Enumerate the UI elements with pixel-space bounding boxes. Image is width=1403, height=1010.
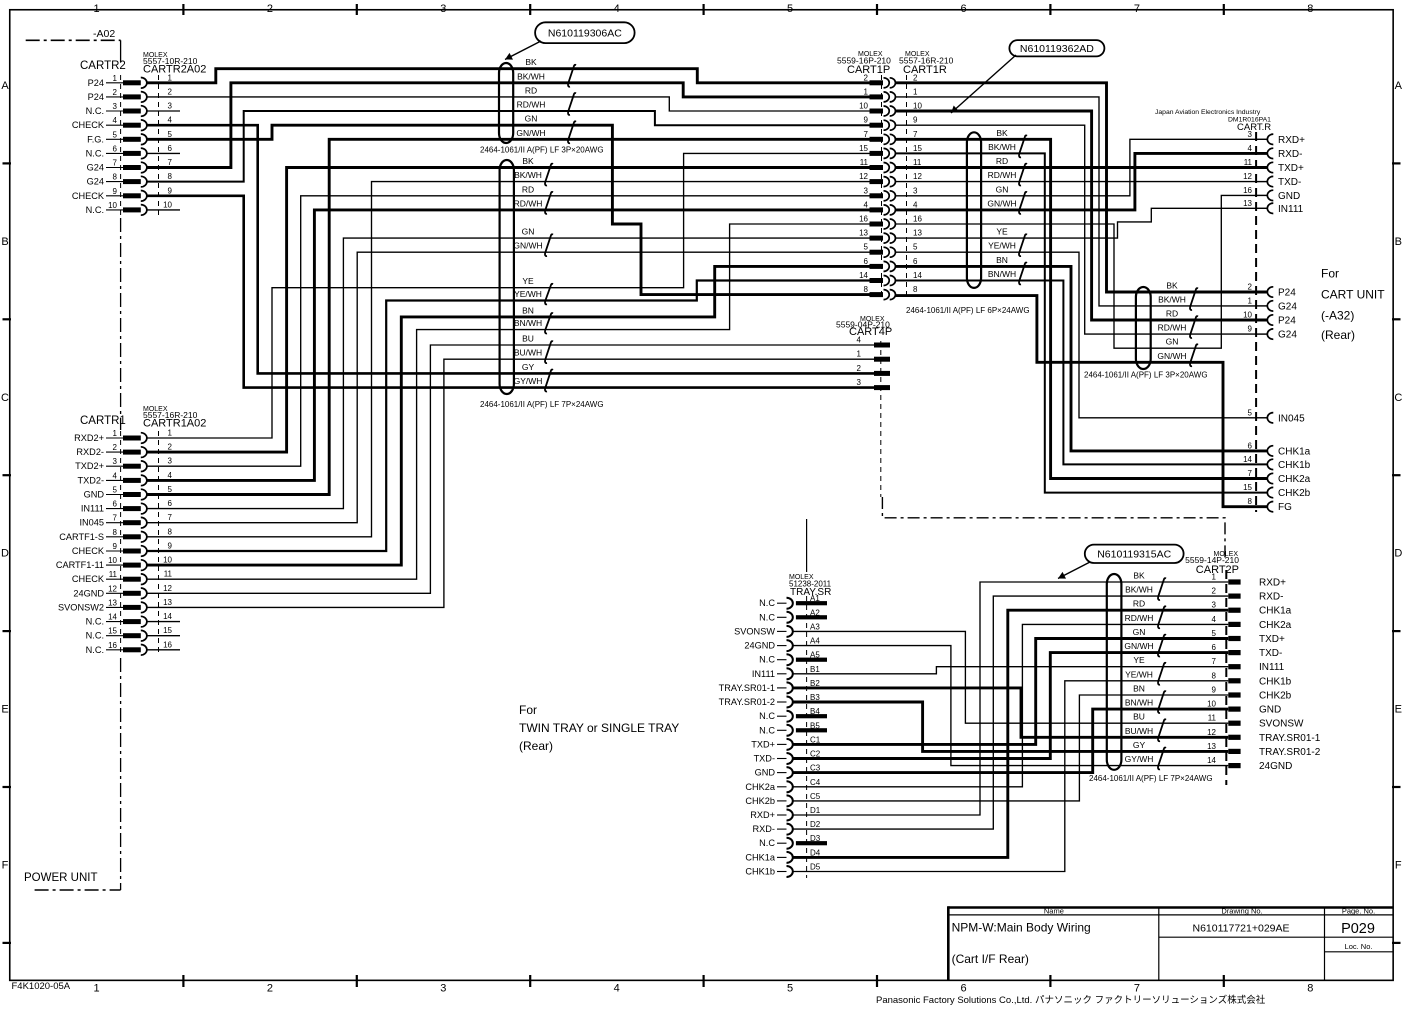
svg-text:CHK1a: CHK1a — [1278, 446, 1311, 457]
svg-text:9: 9 — [1248, 325, 1253, 334]
svg-text:8: 8 — [913, 285, 918, 294]
svg-text:GY/WH: GY/WH — [1125, 754, 1154, 764]
svg-text:14: 14 — [859, 271, 868, 280]
wire CART1R.5 -> CART.R.5 IN045 (YE/WH) — [896, 252, 1268, 418]
svg-text:YE/WH: YE/WH — [988, 241, 1016, 251]
wire CARTR1.14 N.C. stub — [146, 621, 180, 623]
svg-text:4: 4 — [168, 116, 173, 125]
svg-text:TRAY.SR01-2: TRAY.SR01-2 — [719, 697, 775, 707]
svg-text:RD: RD — [525, 85, 537, 95]
svg-text:CHK1b: CHK1b — [1259, 676, 1292, 687]
boundary line above TRAY.SR — [806, 519, 808, 572]
svg-text:1: 1 — [113, 429, 118, 438]
wire CARTR2.3 N.C. stub — [146, 110, 180, 112]
svg-text:IN111: IN111 — [81, 504, 104, 514]
svg-text:C4: C4 — [810, 778, 821, 787]
wire TRAY.SR.B3 TRAY.SR01-2 -> CART2P.13 (GY) — [794, 702, 1229, 751]
svg-text:7: 7 — [113, 514, 118, 523]
svg-text:D5: D5 — [810, 863, 821, 872]
svg-text:7: 7 — [913, 130, 918, 139]
svg-text:B: B — [1, 236, 8, 248]
svg-text:BN/WH: BN/WH — [988, 269, 1016, 279]
svg-text:8: 8 — [113, 528, 118, 537]
wire TRAY.SR.C4 CHK2a -> CART2P.4 (RD/WH) — [794, 624, 1229, 786]
svg-text:9: 9 — [913, 116, 918, 125]
svg-text:15: 15 — [163, 626, 172, 635]
svg-text:BN: BN — [522, 305, 534, 315]
svg-text:TXD2-: TXD2- — [77, 475, 104, 485]
svg-text:5: 5 — [913, 243, 918, 252]
svg-text:Name: Name — [1044, 906, 1064, 915]
cable shield 3P x 20AWG (CARTR2 power cable) — [499, 63, 513, 143]
svg-text:N.C: N.C — [759, 711, 775, 721]
svg-text:C5: C5 — [810, 792, 821, 801]
svg-text:SVONSW: SVONSW — [734, 626, 775, 636]
svg-text:CHK1b: CHK1b — [1278, 460, 1311, 471]
svg-text:5: 5 — [787, 3, 793, 15]
svg-text:3: 3 — [113, 102, 118, 111]
leader arrow to CART1R — [951, 55, 1016, 113]
svg-text:TXD+: TXD+ — [751, 739, 775, 749]
svg-text:TWIN TRAY or SINGLE TRAY: TWIN TRAY or SINGLE TRAY — [519, 721, 679, 735]
wire CARTR1.2 RXD2- -> CART1P.11 (RD) — [146, 168, 869, 453]
svg-text:YE: YE — [1133, 655, 1145, 665]
svg-text:10: 10 — [859, 102, 868, 111]
svg-text:2464-1061/II A(PF) LF 3P×20AWG: 2464-1061/II A(PF) LF 3P×20AWG — [480, 145, 604, 154]
svg-text:5: 5 — [113, 486, 118, 495]
title block — [948, 906, 1393, 909]
svg-text:CHK2b: CHK2b — [1259, 691, 1292, 702]
svg-text:F4K1020-05A: F4K1020-05A — [12, 981, 71, 992]
svg-text:7: 7 — [113, 159, 118, 168]
svg-text:RD: RD — [996, 156, 1008, 166]
svg-text:GND: GND — [1278, 191, 1300, 202]
svg-text:B1: B1 — [810, 665, 820, 674]
svg-text:7: 7 — [168, 158, 173, 167]
svg-text:GY: GY — [1133, 740, 1146, 750]
svg-text:6: 6 — [113, 144, 118, 153]
svg-text:1: 1 — [93, 3, 99, 15]
svg-text:BK/WH: BK/WH — [988, 142, 1016, 152]
harness number bubble N610119315AC — [1085, 545, 1184, 563]
svg-text:8: 8 — [1307, 3, 1313, 15]
svg-text:GN: GN — [522, 227, 535, 237]
svg-text:G24: G24 — [87, 163, 104, 173]
svg-text:RXD2-: RXD2- — [76, 447, 104, 457]
svg-text:3: 3 — [864, 186, 869, 195]
svg-text:GND: GND — [84, 490, 105, 500]
svg-text:CARTF1-11: CARTF1-11 — [56, 560, 104, 570]
wire CARTR2.7 G24 -> CART1P.1 (BK/WH) — [146, 83, 869, 168]
svg-text:IN045: IN045 — [79, 518, 104, 528]
svg-text:E: E — [1395, 704, 1402, 716]
svg-text:BK/WH: BK/WH — [514, 170, 542, 180]
svg-text:16: 16 — [1243, 186, 1252, 195]
wire TRAY.SR.C5 CHK2b -> CART2P.9 (BN) — [794, 695, 1229, 801]
svg-text:RD: RD — [1133, 599, 1145, 609]
svg-text:BU: BU — [522, 334, 534, 344]
svg-text:8: 8 — [113, 173, 118, 182]
svg-text:11: 11 — [860, 158, 869, 167]
svg-text:RD/WH: RD/WH — [1158, 323, 1187, 333]
svg-text:CART1P: CART1P — [847, 64, 890, 76]
wire CARTR2.9 CHECK -> CART4P.3 — [146, 196, 874, 388]
svg-text:3: 3 — [857, 378, 862, 387]
cable shield 6P x 24AWG (CART1R signal cable) — [967, 132, 981, 288]
svg-text:RD: RD — [522, 184, 534, 194]
svg-text:2464-1061/II A(PF) LF 6P×24AWG: 2464-1061/II A(PF) LF 6P×24AWG — [906, 306, 1030, 315]
svg-text:15: 15 — [108, 627, 117, 636]
svg-text:A: A — [1395, 80, 1403, 92]
svg-text:4: 4 — [1248, 144, 1253, 153]
svg-text:TRAY.SR01-2: TRAY.SR01-2 — [1259, 747, 1321, 758]
svg-text:CHECK: CHECK — [72, 574, 105, 584]
leader arrow to cable 4 — [1058, 562, 1090, 579]
svg-text:14: 14 — [108, 613, 117, 622]
svg-text:12: 12 — [859, 172, 868, 181]
harness number bubble N610119306AC — [535, 22, 635, 43]
svg-text:D1: D1 — [810, 806, 821, 815]
svg-text:6: 6 — [913, 257, 918, 266]
svg-text:14: 14 — [913, 271, 922, 280]
svg-text:4: 4 — [864, 200, 869, 209]
svg-text:10: 10 — [108, 556, 117, 565]
svg-text:2: 2 — [113, 443, 118, 452]
wire CART1R.15 -> CART.R.15 CHK2b (BK/WH) — [896, 153, 1268, 492]
wire CARTR2.8 G24 -> CART1P.9 (RD/WH) — [146, 111, 869, 182]
wire CARTR1.6 IN111 -> CART1P.13 (YE) — [146, 238, 869, 509]
svg-text:9: 9 — [1212, 686, 1217, 695]
wire TRAY.SR.A4 24GND -> CART2P.14 (GY/WH) — [794, 646, 1229, 766]
svg-text:6: 6 — [168, 499, 173, 508]
svg-text:CHECK: CHECK — [72, 546, 105, 556]
wire TRAY.SR.B2 TRAY.SR01-1 -> CART2P.12 (BU/WH) — [794, 688, 1229, 737]
svg-text:N610119362AD: N610119362AD — [1020, 43, 1094, 55]
wire CARTR1.8 CARTF1-S -> CART1P.12 (RD/WH) — [146, 182, 869, 537]
svg-text:3: 3 — [440, 983, 446, 995]
svg-text:G24: G24 — [87, 177, 104, 187]
svg-text:GY: GY — [522, 362, 535, 372]
svg-text:2: 2 — [168, 87, 173, 96]
svg-text:A: A — [1, 80, 9, 92]
wire CART1R.2 -> CART.R.2 P24 (BK) — [896, 83, 1268, 292]
svg-text:1: 1 — [864, 87, 869, 96]
svg-text:GN/WH: GN/WH — [987, 198, 1016, 208]
svg-text:TRAY.SR01-1: TRAY.SR01-1 — [719, 683, 775, 693]
svg-text:For: For — [519, 703, 537, 717]
svg-text:CARTR1A02: CARTR1A02 — [143, 418, 206, 430]
svg-text:BU/WH: BU/WH — [1125, 726, 1153, 736]
svg-text:BU/WH: BU/WH — [514, 348, 542, 358]
svg-text:4: 4 — [913, 200, 918, 209]
svg-text:BK/WH: BK/WH — [517, 71, 545, 81]
svg-text:11: 11 — [1244, 158, 1253, 167]
svg-text:11: 11 — [1208, 714, 1217, 723]
svg-text:YE/WH: YE/WH — [514, 289, 542, 299]
svg-text:CARTR2A02: CARTR2A02 — [143, 64, 206, 76]
svg-text:B: B — [1395, 236, 1402, 248]
cable shield 7P x 24AWG (CARTR1 signal cable) — [500, 160, 514, 394]
svg-text:6: 6 — [1212, 643, 1217, 652]
wire TRAY.SR.A3 SVONSW -> CART2P.11 (BU) — [794, 631, 1229, 723]
svg-text:12: 12 — [108, 584, 117, 593]
svg-text:IN111: IN111 — [1259, 662, 1285, 673]
svg-text:BK: BK — [1166, 281, 1178, 291]
svg-text:RXD+: RXD+ — [1278, 135, 1305, 146]
svg-text:RXD-: RXD- — [1259, 592, 1283, 603]
svg-text:E: E — [1, 704, 8, 716]
wire CARTR1.16 N.C. stub — [146, 649, 180, 651]
svg-text:4: 4 — [113, 116, 118, 125]
wire CARTR1.3 TXD2+ -> CART1P.3 (GN) — [146, 196, 869, 466]
wire CARTR1.4 TXD2- -> CART1P.4 (GN/WH) — [146, 210, 869, 481]
wire CARTR1.11 CHECK -> CART1P.16 — [146, 224, 869, 579]
svg-text:24GND: 24GND — [744, 641, 775, 651]
svg-text:15: 15 — [859, 144, 868, 153]
svg-text:A4: A4 — [810, 637, 820, 646]
svg-text:BK/WH: BK/WH — [1125, 585, 1153, 595]
svg-text:12: 12 — [1243, 172, 1252, 181]
wire CART1R.6 -> CART.R.6 CHK1a (BN) — [896, 266, 1268, 451]
svg-text:2: 2 — [864, 73, 869, 82]
svg-text:F.G.: F.G. — [87, 134, 104, 144]
svg-text:N.C: N.C — [759, 598, 775, 608]
svg-text:8: 8 — [1248, 497, 1253, 506]
svg-text:12: 12 — [1207, 728, 1216, 737]
svg-text:5: 5 — [1248, 408, 1253, 417]
svg-text:CHK1a: CHK1a — [1259, 606, 1292, 617]
svg-text:GND: GND — [1259, 705, 1281, 716]
svg-text:3: 3 — [440, 3, 446, 15]
svg-text:CHK2b: CHK2b — [745, 796, 775, 806]
wire TRAY.SR.D1 RXD+ -> CART2P.1 (BK) — [794, 582, 1229, 815]
svg-text:YE: YE — [522, 276, 534, 286]
svg-text:CARTR1: CARTR1 — [80, 415, 126, 427]
svg-text:GN: GN — [996, 184, 1009, 194]
svg-text:CHK2a: CHK2a — [1259, 620, 1292, 631]
svg-text:13: 13 — [1243, 199, 1252, 208]
svg-text:7: 7 — [1134, 983, 1140, 995]
svg-text:IN111: IN111 — [752, 669, 775, 679]
svg-text:RD: RD — [1166, 309, 1178, 319]
svg-text:(Rear): (Rear) — [1321, 328, 1355, 342]
wire CART1R.1 -> CART.R.1 G24 (BK/WH) — [896, 97, 1268, 306]
wire CARTR2.6 N.C. stub — [146, 152, 180, 154]
svg-text:6: 6 — [960, 983, 966, 995]
svg-text:GN/WH: GN/WH — [1124, 641, 1153, 651]
svg-text:1: 1 — [93, 983, 99, 995]
svg-text:11: 11 — [164, 570, 173, 579]
svg-text:RXD+: RXD+ — [750, 810, 775, 820]
svg-text:16: 16 — [108, 641, 117, 650]
boundary -A02 (power unit enclosure) — [26, 39, 121, 41]
svg-text:BN/WH: BN/WH — [514, 318, 542, 328]
svg-text:P24: P24 — [1278, 288, 1296, 299]
svg-text:1: 1 — [913, 87, 918, 96]
svg-text:TXD-: TXD- — [754, 754, 775, 764]
wire CARTR1.12 24GND -> CART4P.4 — [146, 345, 874, 593]
svg-text:12: 12 — [913, 172, 922, 181]
svg-text:CHK2a: CHK2a — [745, 782, 776, 792]
svg-text:3: 3 — [913, 186, 918, 195]
svg-text:CHK2b: CHK2b — [1278, 488, 1311, 499]
svg-text:P24: P24 — [88, 92, 104, 102]
svg-text:9: 9 — [864, 116, 869, 125]
wire CART1R.8 -> CART.R.8 FG (GN/WH) — [896, 296, 1268, 507]
svg-text:YE: YE — [996, 227, 1008, 237]
svg-text:1: 1 — [1248, 296, 1253, 305]
svg-text:CHK1b: CHK1b — [745, 867, 775, 877]
svg-text:5: 5 — [113, 130, 118, 139]
svg-text:7: 7 — [1248, 469, 1253, 478]
svg-text:N610119306AC: N610119306AC — [548, 28, 622, 40]
svg-text:BK: BK — [522, 156, 534, 166]
wire CART1R.14 -> CART.R.14 CHK1b (BN/WH) — [896, 281, 1268, 465]
svg-text:TXD-: TXD- — [1259, 648, 1282, 659]
svg-text:GN/WH: GN/WH — [513, 241, 542, 251]
wire CARTR2.2 P24 -> CART1P.10 (RD) — [146, 97, 869, 111]
svg-text:N.C.: N.C. — [86, 631, 104, 641]
svg-text:(Rear): (Rear) — [519, 739, 553, 753]
svg-text:IN111: IN111 — [1278, 204, 1304, 215]
svg-text:6: 6 — [113, 500, 118, 509]
svg-text:14: 14 — [1243, 455, 1252, 464]
svg-text:11: 11 — [913, 158, 922, 167]
svg-text:NPM-W:Main Body Wiring: NPM-W:Main Body Wiring — [952, 921, 1091, 935]
svg-text:TXD+: TXD+ — [1278, 163, 1304, 174]
svg-text:2: 2 — [113, 88, 118, 97]
svg-text:BK: BK — [525, 57, 537, 67]
svg-text:N610117721+029AE: N610117721+029AE — [1192, 923, 1289, 935]
svg-text:FG: FG — [1278, 502, 1292, 513]
svg-text:16: 16 — [163, 640, 172, 649]
svg-text:7: 7 — [1212, 657, 1217, 666]
svg-text:8: 8 — [1212, 671, 1217, 680]
wire CARTR2.4 CHECK -> CART4P.2 — [146, 125, 874, 373]
svg-text:9: 9 — [113, 542, 118, 551]
svg-text:RD/WH: RD/WH — [517, 100, 546, 110]
wire CARTR2.10 N.C. stub — [146, 209, 180, 211]
svg-text:BN: BN — [1133, 684, 1145, 694]
svg-text:8: 8 — [168, 172, 173, 181]
svg-text:14: 14 — [1207, 756, 1216, 765]
svg-text:F: F — [1395, 860, 1402, 872]
svg-text:Drawing No.: Drawing No. — [1221, 906, 1262, 915]
svg-text:8: 8 — [864, 285, 869, 294]
cable shield 3P x 20AWG (CART.R power cable) — [1136, 287, 1151, 369]
svg-text:24GND: 24GND — [1259, 761, 1292, 772]
svg-text:C: C — [1, 392, 9, 404]
svg-text:9: 9 — [168, 186, 173, 195]
svg-text:3: 3 — [1248, 130, 1253, 139]
svg-text:8: 8 — [1307, 983, 1313, 995]
svg-text:1: 1 — [168, 73, 173, 82]
svg-text:D2: D2 — [810, 820, 821, 829]
svg-text:GN: GN — [1166, 337, 1179, 347]
wire TRAY.SR.C3 GND -> CART2P.10 (BN/WH) — [794, 709, 1229, 773]
svg-text:TXD+: TXD+ — [1259, 634, 1285, 645]
svg-text:2464-1061/II A(PF) LF 7P×24AWG: 2464-1061/II A(PF) LF 7P×24AWG — [1089, 774, 1213, 783]
svg-text:TRAY.SR01-1: TRAY.SR01-1 — [1259, 733, 1321, 744]
svg-text:4: 4 — [168, 471, 173, 480]
svg-text:6: 6 — [960, 3, 966, 15]
svg-text:Panasonic Factory Solutions Co: Panasonic Factory Solutions Co.,Ltd. パナソ… — [876, 994, 1266, 1006]
svg-text:BK: BK — [996, 128, 1008, 138]
svg-text:GN: GN — [525, 114, 538, 124]
svg-text:BK: BK — [1133, 571, 1145, 581]
svg-text:5: 5 — [1212, 629, 1217, 638]
svg-text:N.C.: N.C. — [86, 205, 104, 215]
svg-text:YE/WH: YE/WH — [1125, 669, 1153, 679]
cable shield 7P x 24AWG (CART2P cable) — [1107, 574, 1122, 770]
svg-text:3: 3 — [113, 457, 118, 466]
svg-text:3: 3 — [168, 457, 173, 466]
svg-text:12: 12 — [163, 584, 172, 593]
svg-text:4: 4 — [113, 471, 118, 480]
svg-text:7: 7 — [168, 513, 173, 522]
wire CART1R.3 -> CART.R.3 RXD+ (GN) — [896, 139, 1268, 196]
wire CARTR1.1 RXD2+ -> CART1P.15 — [146, 153, 869, 438]
svg-text:5: 5 — [168, 485, 173, 494]
svg-text:N.C.: N.C. — [86, 617, 104, 627]
svg-text:14: 14 — [163, 612, 172, 621]
wire CARTR1.10 CARTF1-11 -> CART1P.6 (BN) — [146, 266, 869, 565]
svg-text:10: 10 — [163, 556, 172, 565]
svg-text:4: 4 — [1212, 615, 1217, 624]
svg-text:N.C: N.C — [759, 725, 775, 735]
svg-text:N.C: N.C — [759, 838, 775, 848]
svg-text:5: 5 — [864, 243, 869, 252]
svg-text:P24: P24 — [1278, 316, 1296, 327]
svg-text:N.C.: N.C. — [86, 106, 104, 116]
wire CARTR1.15 N.C. stub — [146, 635, 180, 637]
svg-text:-A02: -A02 — [93, 28, 115, 40]
svg-text:10: 10 — [1243, 311, 1252, 320]
svg-text:RD/WH: RD/WH — [988, 170, 1017, 180]
svg-text:CART1R: CART1R — [903, 64, 947, 76]
svg-text:13: 13 — [163, 598, 172, 607]
svg-text:CHK2a: CHK2a — [1278, 474, 1311, 485]
svg-text:TXD-: TXD- — [1278, 177, 1301, 188]
svg-text:A3: A3 — [810, 622, 820, 631]
svg-text:RXD2+: RXD2+ — [74, 433, 104, 443]
svg-text:24GND: 24GND — [73, 588, 104, 598]
svg-text:D: D — [1, 548, 9, 560]
svg-text:CHECK: CHECK — [72, 120, 105, 130]
leader arrow to cable 1 — [505, 41, 541, 60]
svg-text:F: F — [2, 860, 9, 872]
svg-text:10: 10 — [108, 201, 117, 210]
svg-text:2464-1061/II A(PF) LF 3P×20AWG: 2464-1061/II A(PF) LF 3P×20AWG — [1084, 371, 1208, 380]
svg-text:1: 1 — [1212, 573, 1217, 582]
svg-text:N.C: N.C — [759, 612, 775, 622]
svg-text:RXD-: RXD- — [753, 824, 775, 834]
svg-text:2: 2 — [1212, 587, 1217, 596]
svg-text:4: 4 — [614, 3, 620, 15]
svg-text:N.C.: N.C. — [86, 645, 104, 655]
svg-text:BK/WH: BK/WH — [1158, 294, 1186, 304]
svg-text:13: 13 — [1207, 742, 1216, 751]
svg-text:CART4P: CART4P — [849, 326, 892, 338]
svg-text:13: 13 — [859, 229, 868, 238]
wire CART1R.9 -> CART.R.9 G24 (RD/WH) — [896, 125, 1268, 334]
wire TRAY.SR.C2 TXD- -> CART2P.6 (GN/WH) — [794, 653, 1229, 759]
svg-text:3: 3 — [1212, 601, 1217, 610]
svg-text:1: 1 — [168, 429, 173, 438]
svg-text:RXD+: RXD+ — [1259, 578, 1286, 589]
svg-text:9: 9 — [168, 542, 173, 551]
svg-text:Loc. No.: Loc. No. — [1345, 942, 1373, 951]
